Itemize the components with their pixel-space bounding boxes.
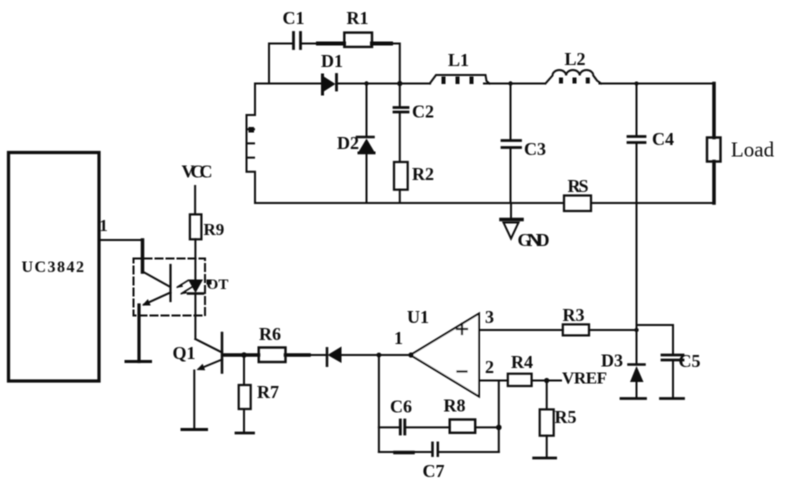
svg-text:C5: C5 [679, 351, 701, 371]
svg-text:U1: U1 [407, 307, 429, 327]
svg-text:C1: C1 [283, 8, 305, 28]
svg-text:C3: C3 [524, 139, 546, 159]
svg-text:VCC: VCC [182, 162, 213, 182]
svg-text:C7: C7 [423, 461, 445, 481]
svg-text:L1: L1 [448, 50, 469, 70]
svg-text:R5: R5 [555, 407, 577, 427]
svg-text:R4: R4 [511, 352, 533, 372]
svg-text:1: 1 [99, 216, 108, 235]
svg-text:D3: D3 [601, 351, 623, 371]
svg-text:L2: L2 [564, 49, 585, 69]
svg-text:R6: R6 [259, 324, 281, 344]
svg-text:C4: C4 [652, 129, 674, 149]
svg-text:RS: RS [568, 176, 589, 196]
svg-text:C2: C2 [412, 102, 434, 122]
svg-text:OT: OT [207, 277, 229, 293]
svg-text:1: 1 [394, 328, 403, 348]
svg-text:R1: R1 [347, 8, 369, 28]
svg-text:UC3842: UC3842 [21, 259, 85, 276]
svg-text:R2: R2 [412, 164, 434, 184]
svg-text:R3: R3 [563, 305, 585, 325]
svg-text:R8: R8 [444, 396, 466, 416]
svg-text:3: 3 [485, 307, 494, 327]
svg-text:R7: R7 [257, 382, 279, 402]
svg-text:GND: GND [518, 230, 550, 250]
svg-text:2: 2 [485, 357, 494, 377]
svg-text:Q1: Q1 [172, 343, 195, 363]
svg-text:VREF: VREF [562, 369, 607, 388]
svg-text:D1: D1 [321, 51, 343, 71]
svg-text:Load: Load [731, 138, 775, 162]
svg-text:D2: D2 [337, 133, 359, 153]
svg-text:R9: R9 [204, 220, 225, 239]
svg-text:C6: C6 [390, 397, 412, 417]
